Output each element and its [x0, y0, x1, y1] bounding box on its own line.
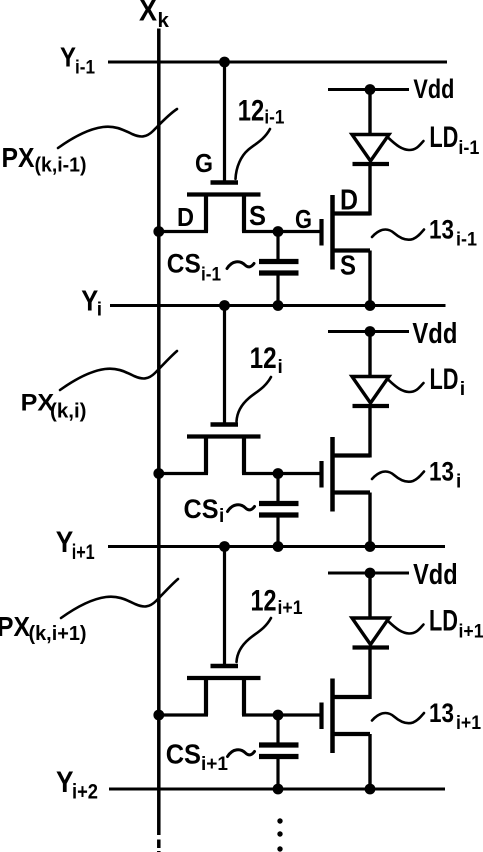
transistor 12i-1 gate node on Yi-1: [219, 57, 230, 68]
row scan line Yi+1: [108, 545, 445, 548]
svg-text:(k,i-1): (k,i-1): [35, 155, 87, 177]
capacitor CSi+1 bottom plate: [259, 754, 299, 759]
transistor 13i channel bar: [330, 437, 335, 512]
LED LDi triangle: [352, 377, 389, 404]
Vdd supply line (cell i): [328, 330, 409, 333]
svg-text:12: 12: [251, 585, 277, 618]
label CSi+1: [166, 739, 229, 776]
svg-text:i: i: [278, 357, 283, 378]
svg-text:Vdd: Vdd: [413, 74, 454, 104]
svg-text:i+2: i+2: [72, 781, 98, 804]
transistor 13i-1 source arm: [333, 248, 371, 252]
LED LDi anode wire to Vdd: [368, 332, 371, 377]
terminal label D of 12i-1: [177, 202, 194, 232]
transistor 13i+1 drain arm: [333, 695, 371, 699]
label Xk: [139, 0, 170, 32]
junction dot source 13i+1 on Yi+2: [365, 784, 376, 795]
transistor 12i gate bar: [211, 422, 239, 427]
svg-text:i+1: i+1: [459, 621, 483, 643]
row scan line Yi: [110, 304, 446, 307]
svg-text:D: D: [177, 202, 194, 232]
label LDi: [430, 363, 466, 400]
svg-text:G: G: [195, 148, 213, 178]
storage node dot (source 12i+1): [273, 710, 284, 721]
leader line for 13i: [372, 472, 424, 482]
svg-text:13: 13: [429, 214, 454, 244]
leader line for LDi: [388, 380, 424, 393]
transistor 12i gate wire: [223, 306, 226, 424]
transistor 12i drain leg: [204, 438, 208, 474]
transistor 13i+1 source wire down to Yi+2: [368, 734, 371, 789]
transistor 12i-1 gate wire: [223, 62, 226, 181]
svg-text:i: i: [460, 378, 465, 400]
transistor 12i+1 gate node on Yi+1: [219, 541, 230, 552]
LED LDi-1 triangle: [352, 135, 389, 162]
transistor 12i-1 source leg: [242, 196, 246, 232]
svg-text:CS: CS: [167, 248, 201, 278]
Vdd supply line (cell i-1): [328, 88, 409, 91]
transistor 13i-1 drain wire up to LED: [368, 164, 371, 216]
label Vdd (cell i): [412, 318, 457, 350]
capacitor CSi-1 top wire: [276, 232, 279, 263]
svg-text:i+1: i+1: [456, 713, 481, 734]
terminal label S of 13i-1: [340, 250, 356, 281]
leader line for PX(k,i): [60, 351, 177, 390]
label LDi-1: [429, 121, 479, 159]
svg-text:k: k: [158, 9, 170, 32]
LED LDi cathode bar: [353, 404, 390, 408]
svg-text:i+1: i+1: [72, 541, 95, 564]
tilde leader for CSi+1: [228, 750, 255, 757]
junction dot capacitor CSi-1 on Yi: [273, 300, 284, 311]
capacitor CSi top plate: [259, 501, 299, 506]
svg-text:i+1: i+1: [278, 598, 303, 619]
LED LDi+1 cathode bar: [353, 645, 390, 649]
leader line for PX(k,i-1): [58, 109, 177, 148]
svg-text:Vdd: Vdd: [412, 318, 457, 350]
junction dot capacitor CSi on Yi+1: [273, 541, 284, 552]
svg-text:Y: Y: [81, 284, 98, 316]
svg-text:D: D: [340, 185, 358, 217]
leader line for LDi+1: [388, 621, 424, 634]
terminal label D of 13i-1: [340, 185, 358, 217]
wire drain of 12i-1 to Xk: [156, 230, 208, 233]
label Vdd (cell i-1): [413, 74, 454, 104]
svg-text:i-1: i-1: [264, 108, 284, 129]
transistor 13i+1 drain wire up to LED: [368, 648, 371, 700]
label CSi: [184, 494, 225, 527]
svg-text:CS: CS: [166, 739, 201, 770]
svg-text:PX: PX: [2, 142, 36, 173]
svg-text:12: 12: [238, 95, 264, 128]
LED LDi-1 cathode bar: [353, 162, 390, 166]
label Vdd (cell i+1): [413, 559, 458, 591]
svg-text:i: i: [219, 506, 224, 527]
tilde leader for CSi-1: [227, 262, 254, 269]
row scan line Yi-1: [108, 61, 447, 64]
junction dot Vdd (cell i-1): [365, 84, 376, 95]
wire drain of 12i+1 to Xk: [156, 713, 208, 716]
svg-text:i-1: i-1: [75, 57, 95, 79]
label 12i-1: [238, 95, 285, 129]
transistor 12i source leg: [242, 438, 246, 474]
terminal label G of 12i-1: [195, 148, 213, 178]
capacitor CSi+1 top plate: [259, 742, 299, 747]
transistor 13i-1 channel bar: [330, 195, 335, 270]
label 12i: [250, 342, 283, 378]
leader line for 12i-1: [236, 129, 271, 179]
junction dot Vdd (cell i+1): [365, 568, 376, 579]
capacitor CSi-1 bottom wire: [276, 273, 279, 306]
svg-text:13: 13: [429, 456, 454, 486]
svg-text:(k,i): (k,i): [50, 400, 87, 423]
Vdd supply line (cell i+1): [328, 572, 409, 575]
wire source of 12i to gate of 13i: [242, 472, 321, 475]
pixel label PX(k,i): [21, 390, 87, 423]
transistor 12i channel bar: [187, 434, 261, 438]
leader line for 13i+1: [372, 713, 424, 723]
transistor 13i+1 channel bar: [330, 679, 335, 754]
junction dot on Xk (drain 12i-1): [153, 226, 164, 237]
junction dot on Xk (drain 12i): [153, 468, 164, 479]
svg-text:Y: Y: [56, 526, 73, 559]
pixel label PX(k,i+1): [0, 611, 87, 645]
svg-text:i: i: [97, 300, 102, 321]
transistor 13i source wire down to Yi+1: [368, 493, 371, 547]
label Yi-1: [60, 42, 95, 79]
wire source of 12i+1 to gate of 13i+1: [242, 713, 321, 716]
capacitor CSi bottom wire: [276, 515, 279, 547]
transistor 12i+1 source leg: [242, 680, 246, 716]
tilde leader for CSi: [228, 505, 255, 512]
LED LDi+1 anode wire to Vdd: [368, 573, 371, 618]
transistor 13i drain arm: [333, 453, 371, 457]
LED LDi+1 triangle: [352, 618, 389, 645]
svg-text:G: G: [295, 204, 312, 234]
row scan line Yi+2: [109, 788, 445, 791]
svg-text:i-1: i-1: [458, 137, 479, 159]
capacitor CSi top wire: [276, 474, 279, 505]
junction dot source 13i-1 on Yi: [365, 300, 376, 311]
svg-text:CS: CS: [184, 494, 219, 524]
transistor 13i-1 drain arm: [333, 211, 371, 215]
svg-text:Vdd: Vdd: [413, 559, 458, 591]
svg-text:(k,i+1): (k,i+1): [29, 623, 87, 645]
transistor 12i-1 drain leg: [204, 196, 208, 232]
label 12i+1: [251, 585, 303, 620]
svg-text:X: X: [139, 0, 158, 28]
transistor 13i drain wire up to LED: [368, 406, 371, 458]
svg-text:LD: LD: [429, 121, 458, 154]
svg-text:LD: LD: [430, 363, 459, 396]
svg-text:Y: Y: [56, 766, 74, 799]
svg-text:LD: LD: [429, 605, 458, 638]
storage node dot (source 12i-1): [273, 226, 284, 237]
svg-text:PX: PX: [0, 611, 31, 642]
transistor 12i+1 gate wire: [223, 547, 226, 665]
wire drain of 12i to Xk: [156, 472, 208, 475]
junction dot Vdd (cell i): [365, 326, 376, 337]
label Yi+1: [56, 526, 95, 564]
leader line for 12i+1: [237, 618, 272, 662]
capacitor CSi+1 top wire: [276, 715, 279, 746]
junction dot capacitor CSi+1 on Yi+2: [273, 784, 284, 795]
transistor 13i+1 gate bar: [319, 703, 323, 730]
transistor 13i-1 gate bar: [319, 219, 323, 246]
transistor 12i+1 drain leg: [204, 680, 208, 716]
capacitor CSi bottom plate: [259, 512, 299, 517]
capacitor CSi+1 bottom wire: [276, 757, 279, 790]
terminal label G of 13i-1: [295, 204, 312, 234]
transistor 12i-1 channel bar: [187, 192, 261, 196]
label CSi-1: [167, 248, 222, 285]
leader line for LDi-1: [388, 138, 424, 151]
label 13i: [429, 456, 461, 492]
label 13i+1: [429, 698, 481, 734]
label 13i-1: [429, 214, 477, 250]
capacitor CSi-1 top plate: [259, 259, 299, 264]
capacitor CSi-1 bottom plate: [259, 270, 299, 275]
svg-text:13: 13: [429, 698, 454, 728]
transistor 13i source arm: [333, 490, 371, 494]
leader line for 13i-1: [372, 230, 424, 240]
label LDi+1: [429, 605, 483, 643]
junction dot source 13i on Yi+1: [365, 541, 376, 552]
svg-text:S: S: [249, 200, 266, 231]
svg-text:i-1: i-1: [456, 230, 477, 251]
leader line for 12i: [237, 377, 272, 422]
label Yi: [81, 284, 102, 320]
svg-text:i: i: [456, 472, 461, 493]
terminal label S of 12i-1: [249, 200, 266, 231]
transistor 13i-1 source wire down to Yi: [368, 251, 371, 306]
wire source of 12i-1 to gate of 13i-1: [242, 230, 321, 233]
transistor 12i-1 gate bar: [211, 180, 239, 185]
svg-text:12: 12: [250, 342, 277, 375]
transistor 13i+1 source arm: [333, 732, 371, 736]
transistor 12i+1 gate bar: [211, 664, 239, 669]
svg-text:S: S: [340, 250, 356, 281]
label Yi+2: [56, 766, 98, 804]
junction dot on Xk (drain 12i+1): [153, 710, 164, 721]
storage node dot (source 12i): [273, 468, 284, 479]
transistor 12i+1 channel bar: [187, 676, 261, 680]
pixel label PX(k,i-1): [2, 142, 87, 177]
vertical ellipsis (array continues): [277, 818, 282, 851]
column data line Xk: [157, 29, 161, 852]
svg-text:i+1: i+1: [201, 754, 228, 775]
LED LDi-1 anode wire to Vdd: [368, 90, 371, 135]
svg-text:Y: Y: [60, 42, 76, 73]
svg-text:i-1: i-1: [201, 265, 221, 286]
leader line for PX(k,i+1): [61, 579, 178, 618]
transistor 13i gate bar: [319, 461, 323, 488]
transistor 12i gate node on Yi: [219, 300, 230, 311]
